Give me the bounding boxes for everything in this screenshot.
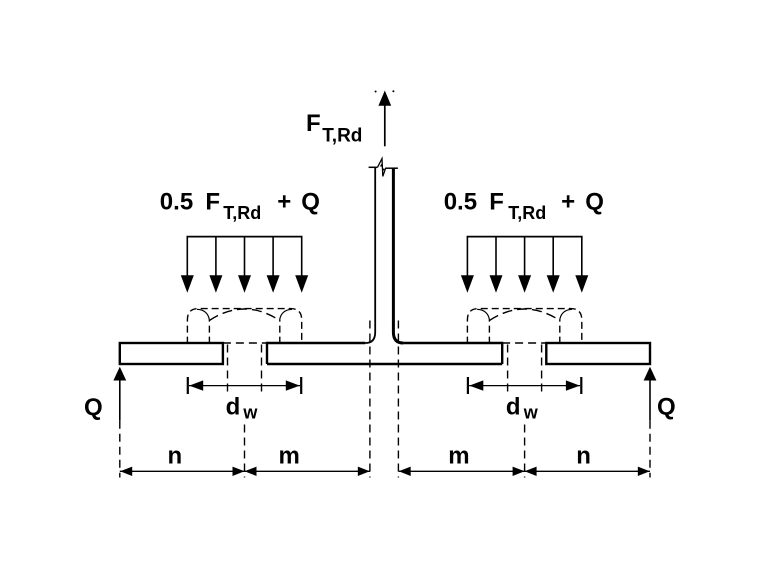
svg-text:Q: Q <box>84 394 103 421</box>
dimension line m-n right <box>399 467 651 476</box>
svg-text:T,Rd: T,Rd <box>223 203 261 223</box>
flange middle segment <box>267 342 502 364</box>
T-stub web right face line with fillet <box>393 169 403 344</box>
dimension d_w right <box>468 377 581 394</box>
load label left: 0.5 F_T,Rd + Q <box>160 189 320 224</box>
svg-text:0.5: 0.5 <box>444 189 477 216</box>
load label right: 0.5 F_T,Rd + Q <box>444 189 604 224</box>
svg-text:w: w <box>523 403 539 423</box>
distributed load group right (0.5 F_T,Rd + Q) <box>461 237 588 293</box>
web face extension line right (dashed) <box>397 321 399 478</box>
bolt centerline left (dashed) <box>244 425 246 478</box>
svg-text:Q: Q <box>301 189 320 216</box>
T-stub web left face line with fillet <box>365 168 375 343</box>
prying force arrow Q right <box>644 367 657 478</box>
bolt shank right (hidden lines) <box>508 345 542 392</box>
svg-text:d: d <box>226 393 241 420</box>
svg-text:+: + <box>277 189 291 216</box>
distributed load group left (0.5 F_T,Rd + Q) <box>181 237 308 293</box>
svg-text:n: n <box>168 443 183 470</box>
svg-text:0.5: 0.5 <box>160 189 193 216</box>
svg-text:m: m <box>279 443 300 470</box>
svg-text:F: F <box>306 110 321 137</box>
svg-text:n: n <box>576 443 591 470</box>
bolt head left (hidden lines) <box>187 309 301 344</box>
svg-text:m: m <box>448 443 469 470</box>
svg-text:d: d <box>506 393 521 420</box>
tension force arrow F_T,Rd <box>375 90 395 146</box>
svg-text:Q: Q <box>585 189 604 216</box>
svg-text:+: + <box>561 189 575 216</box>
bolt head right (hidden lines) <box>467 309 581 344</box>
dimension line n-m left <box>120 467 370 476</box>
svg-text:T,Rd: T,Rd <box>508 203 546 223</box>
svg-text:T,Rd: T,Rd <box>322 126 362 147</box>
dimension label d_w left <box>226 393 259 422</box>
svg-text:Q: Q <box>657 394 676 421</box>
flange left segment <box>120 343 223 364</box>
web break symbol <box>369 159 398 177</box>
svg-text:F: F <box>205 189 220 216</box>
svg-text:F: F <box>489 189 504 216</box>
bolt shank left (hidden lines) <box>228 345 262 392</box>
svg-text:w: w <box>242 403 258 423</box>
bolt centerline right (dashed) <box>524 425 526 478</box>
dimension label d_w right <box>506 393 539 422</box>
force label F_T,Rd <box>306 110 362 147</box>
prying force arrow Q left <box>113 367 126 478</box>
web face extension line left (dashed) <box>369 321 371 478</box>
flange right segment <box>546 343 650 364</box>
dimension d_w left <box>188 377 301 394</box>
